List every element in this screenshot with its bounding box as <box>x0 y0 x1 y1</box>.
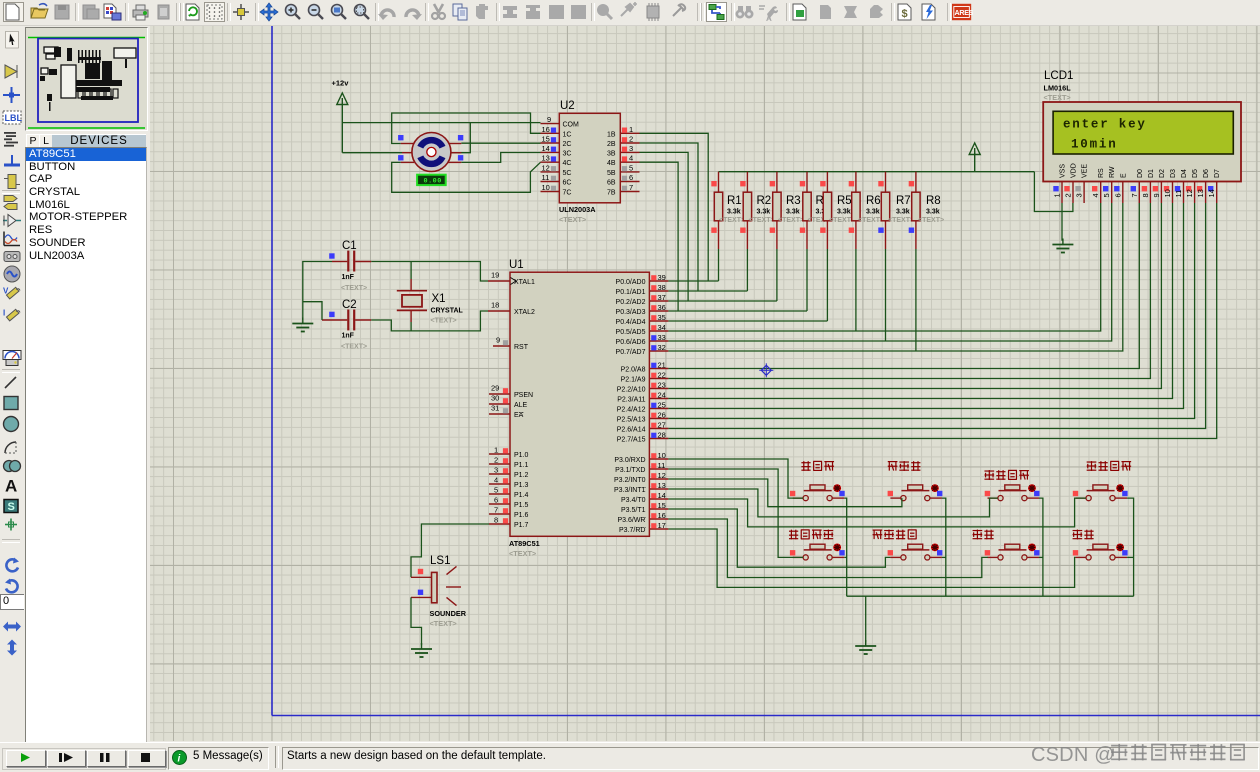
U1 pin XTAL1 <box>488 271 535 287</box>
sheet border <box>272 26 1260 716</box>
svg-text:19: 19 <box>491 271 499 280</box>
U1 pin P3.3 <box>614 481 668 494</box>
svg-text:R7: R7 <box>896 195 911 207</box>
svg-text:12: 12 <box>542 163 550 172</box>
svg-text:<TEXT>: <TEXT> <box>341 285 367 292</box>
svg-text:P3.3/INT1: P3.3/INT1 <box>614 487 646 494</box>
svg-text:X1: X1 <box>432 293 446 305</box>
svg-text:13: 13 <box>542 154 550 163</box>
svg-text:RST: RST <box>514 344 529 351</box>
svg-text:<TEXT>: <TEXT> <box>888 217 914 224</box>
svg-text:0.00: 0.00 <box>424 178 442 186</box>
power +12v terminal <box>332 79 350 153</box>
wire P3.3 to button WX <box>668 489 998 517</box>
svg-text:3.3k: 3.3k <box>896 209 910 216</box>
U1 pin P0.4/AD4 <box>616 313 669 326</box>
svg-text:P1.7: P1.7 <box>514 522 529 529</box>
U1 pin P2.5/A13 <box>617 411 669 424</box>
push button ZJ zengjia shijian (increase time) <box>789 530 845 560</box>
wire P0.2 row <box>668 300 777 302</box>
wire R2 bottom <box>746 249 748 291</box>
svg-text:8: 8 <box>494 516 498 525</box>
svg-text:9: 9 <box>1152 193 1161 197</box>
svg-text:LS1: LS1 <box>430 555 450 567</box>
svg-text:LCD1: LCD1 <box>1044 70 1073 82</box>
svg-text:P0.7/AD7: P0.7/AD7 <box>616 349 646 356</box>
svg-text:P3.4/T0: P3.4/T0 <box>621 497 646 504</box>
wire P0.1 row <box>668 290 747 292</box>
U1 pin P3.5 <box>621 501 668 514</box>
LCD pin 6 E <box>1113 173 1127 203</box>
svg-text:3: 3 <box>494 466 498 475</box>
svg-text:1: 1 <box>494 446 498 455</box>
U1 pin ALE <box>489 394 528 410</box>
svg-text:4: 4 <box>494 476 498 485</box>
svg-text:XTAL1: XTAL1 <box>514 279 535 286</box>
svg-text:P0.2/AD2: P0.2/AD2 <box>616 299 646 306</box>
svg-text:<TEXT>: <TEXT> <box>858 217 884 224</box>
U1 pin P1.2 <box>489 466 529 480</box>
svg-text:P3.6/WR: P3.6/WR <box>617 517 645 524</box>
svg-text:17: 17 <box>658 521 666 530</box>
wire P0.5 row to LCD RS <box>668 203 1100 331</box>
svg-text:P0.0/AD0: P0.0/AD0 <box>616 279 646 286</box>
wire P2.3 to LCD D3 <box>668 203 1172 399</box>
svg-text:7C: 7C <box>563 190 572 197</box>
svg-text:2B: 2B <box>607 141 616 148</box>
LCD LCD1 LM016L <box>1043 70 1241 182</box>
svg-text:S: S <box>8 501 15 513</box>
svg-text:I: I <box>3 309 5 318</box>
svg-text:11: 11 <box>1174 190 1183 198</box>
wire P2.6 to LCD D6 <box>668 203 1205 429</box>
svg-text:3C: 3C <box>563 150 572 157</box>
svg-text:35: 35 <box>658 313 666 322</box>
svg-text:2: 2 <box>629 135 633 144</box>
ground (sounder) <box>421 643 423 649</box>
svg-text:<TEXT>: <TEXT> <box>719 217 745 224</box>
resistor R6 3.3k <box>849 172 884 249</box>
svg-text:D3: D3 <box>1170 169 1177 178</box>
wire P2.7 to LCD D7 <box>668 203 1216 439</box>
U1 pin P0.6/AD6 <box>616 333 669 346</box>
svg-text:30: 30 <box>491 394 499 403</box>
svg-text:3.3k: 3.3k <box>727 209 741 216</box>
svg-text:P1.5: P1.5 <box>514 502 529 509</box>
svg-text:12: 12 <box>1185 189 1194 197</box>
U1 pin P2.7/A15 <box>617 431 669 444</box>
wire R8 bottom <box>915 249 917 351</box>
U1 pin P3.0 <box>614 451 668 464</box>
svg-text:23: 23 <box>658 381 666 390</box>
svg-text:2: 2 <box>1064 193 1073 197</box>
svg-text:P2.3/A11: P2.3/A11 <box>617 397 645 404</box>
svg-text:R6: R6 <box>866 195 881 207</box>
svg-text:P1.1: P1.1 <box>514 462 529 469</box>
wire P2.5 to LCD D5 <box>668 203 1194 419</box>
resistor R4 3.3k <box>800 172 834 249</box>
wire LCD VSS to ground <box>1061 203 1063 241</box>
svg-text:R3: R3 <box>786 195 801 207</box>
svg-text:P2.0/A8: P2.0/A8 <box>621 367 646 374</box>
svg-text:<TEXT>: <TEXT> <box>749 217 775 224</box>
svg-text:34: 34 <box>658 323 666 332</box>
svg-text:7B: 7B <box>607 190 616 197</box>
svg-text:CRYSTAL: CRYSTAL <box>431 308 464 315</box>
wire sounder to ground <box>411 597 422 645</box>
wire motor left-top to U2 1C <box>392 113 541 144</box>
wire +5V rail to LCD VDD <box>1034 172 1073 212</box>
svg-text:P3.1/TXD: P3.1/TXD <box>615 467 645 474</box>
svg-text:P0.6/AD6: P0.6/AD6 <box>616 339 646 346</box>
svg-text:9: 9 <box>496 336 500 345</box>
svg-text:CSDN @: CSDN @ <box>1031 744 1115 766</box>
svg-text:enter key: enter key <box>1063 118 1147 132</box>
U1 pin P0.3/AD3 <box>616 303 669 316</box>
svg-text:27: 27 <box>658 421 666 430</box>
wire motor right-center to COM rail <box>450 123 470 153</box>
wire P0.3 row <box>668 310 807 312</box>
U1 pin P1.5 <box>489 496 529 510</box>
svg-text:16: 16 <box>658 511 666 520</box>
power +5V terminal <box>969 143 980 172</box>
svg-text:13: 13 <box>1196 189 1205 197</box>
origin marker <box>759 363 773 377</box>
svg-text:A: A <box>766 14 772 22</box>
svg-text:P3.7/RD: P3.7/RD <box>619 527 645 534</box>
svg-text:11: 11 <box>542 173 550 182</box>
svg-text:4: 4 <box>1091 193 1100 197</box>
wire motor right-top to U2 2C <box>461 142 540 144</box>
push button MS moshi xuanze (mode select) <box>1073 461 1131 501</box>
svg-text:P2.5/A13: P2.5/A13 <box>617 417 646 424</box>
motor logic indicators <box>398 135 463 161</box>
svg-text:1nF: 1nF <box>342 274 355 281</box>
U1 pin P0.0/AD0 <box>616 273 669 286</box>
svg-text:1B: 1B <box>607 131 616 138</box>
U1 pin P1.6 <box>489 506 529 520</box>
U1 pin P2.2/A10 <box>617 381 669 394</box>
wire X1 bottom to C2 net <box>410 322 412 331</box>
svg-text:3B: 3B <box>607 150 616 157</box>
svg-text:38: 38 <box>658 283 666 292</box>
svg-text:<TEXT>: <TEXT> <box>341 344 367 351</box>
wire U2 1B to P0.0 <box>640 133 709 281</box>
svg-text:3.3k: 3.3k <box>786 209 800 216</box>
stepper motor <box>401 133 462 172</box>
push button SG shuaigan (spin dry) <box>1073 530 1128 560</box>
svg-text:9: 9 <box>547 115 551 124</box>
LCD pin 8 D1 <box>1141 169 1155 203</box>
wire U2 2B to P0.1 <box>640 143 699 291</box>
LCD pin 14 D7 <box>1207 169 1221 203</box>
svg-text:6: 6 <box>494 496 498 505</box>
push button JS jianshao shijian (decrease time) <box>873 530 943 560</box>
svg-text:P1.4: P1.4 <box>514 492 529 499</box>
U1 pin P0.5/AD5 <box>616 323 669 336</box>
svg-text:1C: 1C <box>563 131 572 138</box>
U1 pin RST <box>493 336 529 352</box>
U1 pin P2.3/A11 <box>617 391 668 404</box>
svg-text:7: 7 <box>1130 193 1139 197</box>
U1 pin P0.7/AD7 <box>616 343 669 356</box>
capacitor C1 1nF <box>329 240 371 292</box>
svg-text:D7: D7 <box>1214 169 1221 178</box>
svg-text:ALE: ALE <box>514 402 528 409</box>
resistor R3 3.3k <box>770 172 804 249</box>
svg-text:6B: 6B <box>607 180 616 187</box>
svg-text:RW: RW <box>1109 166 1116 178</box>
wire motor left-bottom to U2 4C <box>392 162 541 192</box>
wire R6 bottom <box>855 249 857 331</box>
wire C2 to XTAL2 <box>371 311 488 331</box>
svg-text:7: 7 <box>494 506 498 515</box>
resistor R5 3.3k <box>820 172 855 249</box>
svg-text:P2.6/A14: P2.6/A14 <box>617 427 646 434</box>
svg-text:<TEXT>: <TEXT> <box>778 217 804 224</box>
svg-text:39: 39 <box>658 273 666 282</box>
push button QL qianglixi (strong wash) <box>888 461 943 501</box>
svg-text:37: 37 <box>658 293 666 302</box>
svg-text:18: 18 <box>491 301 499 310</box>
svg-text:5: 5 <box>1102 193 1111 197</box>
svg-text:11: 11 <box>658 461 666 470</box>
svg-text:6: 6 <box>1113 193 1122 197</box>
svg-text:5C: 5C <box>563 170 572 177</box>
svg-text:6C: 6C <box>563 180 572 187</box>
svg-text:13: 13 <box>658 481 666 490</box>
U1 pin P1.0 <box>489 446 529 460</box>
wire P0.0 row <box>668 280 718 282</box>
svg-text:R8: R8 <box>926 195 941 207</box>
svg-text:VDD: VDD <box>1071 163 1078 178</box>
motor rpm display <box>417 175 446 186</box>
svg-text:4C: 4C <box>563 160 572 167</box>
pullup rail wire (+5V to resistor tops) <box>719 171 1035 173</box>
svg-text:P2.1/A9: P2.1/A9 <box>621 377 646 384</box>
wire P0.4 row <box>668 320 827 322</box>
svg-text:10min: 10min <box>1071 138 1118 152</box>
U1 pin P2.0/A8 <box>621 361 669 374</box>
svg-text:5: 5 <box>494 486 498 495</box>
U1 pin P1.4 <box>489 486 529 500</box>
U1 pin P1.1 <box>489 456 529 470</box>
U1 pin P3.4 <box>621 491 668 504</box>
U1 pin P3.6 <box>617 511 668 524</box>
svg-text:P3.0/RXD: P3.0/RXD <box>614 457 645 464</box>
svg-text:PSEN: PSEN <box>514 392 533 399</box>
wire P2.0 to LCD D0 <box>668 203 1139 369</box>
wire R3 bottom <box>776 249 778 301</box>
svg-text:D6: D6 <box>1203 169 1210 178</box>
svg-text:P3.5/T1: P3.5/T1 <box>621 507 646 514</box>
push button WX weixian zhongduan (danger stop) <box>984 470 1039 501</box>
svg-text:i: i <box>178 754 181 765</box>
svg-text:D1: D1 <box>1148 169 1155 178</box>
wire +12v COM rail <box>342 122 540 124</box>
sounder LS1 <box>411 555 467 628</box>
U1 pin P2.4/A12 <box>617 401 669 414</box>
svg-text:P1.6: P1.6 <box>514 512 529 519</box>
svg-text:2: 2 <box>494 456 498 465</box>
svg-text:D0: D0 <box>1137 169 1144 178</box>
wire P1.7 to sounder <box>411 524 489 577</box>
svg-text:14: 14 <box>542 144 550 153</box>
push button KF qingrouxi (soft wash) <box>790 461 845 501</box>
resistor R2 3.3k <box>740 172 774 249</box>
U1 pin P3.1 <box>615 461 668 474</box>
ULN2003A U2 <box>541 100 640 224</box>
svg-text:VEE: VEE <box>1082 164 1089 178</box>
U1 pin PSEN <box>489 384 533 400</box>
svg-text:RS: RS <box>1098 168 1105 178</box>
svg-text:3.3k: 3.3k <box>926 209 940 216</box>
wire P3.5 to button JS <box>668 509 890 567</box>
svg-text:C2: C2 <box>342 299 357 311</box>
svg-text:LBL: LBL <box>5 113 23 123</box>
svg-text:P3.2/INT0: P3.2/INT0 <box>614 477 646 484</box>
svg-text:3: 3 <box>629 144 633 153</box>
wire U2 4B to P0.3 <box>640 162 679 311</box>
wire R1 bottom <box>718 249 720 281</box>
svg-text:C1: C1 <box>342 240 357 252</box>
svg-text:26: 26 <box>658 411 666 420</box>
wire P2.1 to LCD D1 <box>668 203 1150 379</box>
wire P2.2 to LCD D2 <box>668 203 1161 389</box>
resistor R1 3.3k <box>711 172 745 249</box>
svg-text:EA: EA <box>514 412 524 419</box>
svg-text:P0.5/AD5: P0.5/AD5 <box>616 329 646 336</box>
wire R7 bottom <box>885 249 887 341</box>
ground (LCD VSS) <box>1062 239 1064 245</box>
svg-text:D2: D2 <box>1159 169 1166 178</box>
svg-text:3: 3 <box>1075 193 1084 197</box>
svg-text:XTAL2: XTAL2 <box>514 309 535 316</box>
svg-text:12: 12 <box>658 471 666 480</box>
wire motor left-center from +12v <box>342 152 402 154</box>
svg-text:D4: D4 <box>1181 169 1188 178</box>
svg-text:5: 5 <box>629 163 633 172</box>
svg-text:SOUNDER: SOUNDER <box>430 609 467 618</box>
resistor R8 3.3k <box>909 172 944 249</box>
wire C1 left to ground <box>303 262 332 320</box>
LCD pin 11 D4 <box>1174 169 1188 203</box>
svg-text:28: 28 <box>658 431 666 440</box>
LCD pin 12 D5 <box>1185 169 1199 203</box>
svg-text:33: 33 <box>658 333 666 342</box>
wire rail to ground <box>865 596 867 642</box>
wire R4 bottom <box>806 249 808 311</box>
svg-text:8: 8 <box>1141 193 1150 197</box>
LCD pin 13 D6 <box>1196 169 1210 203</box>
svg-text:COM: COM <box>563 122 580 129</box>
svg-text:R2: R2 <box>757 195 772 207</box>
svg-text:3.3k: 3.3k <box>837 209 851 216</box>
svg-text:P1.0: P1.0 <box>514 452 529 459</box>
svg-text:1: 1 <box>629 125 633 134</box>
push button QD qidong (start) <box>973 530 1040 560</box>
U1 pin P3.7 <box>619 521 668 534</box>
svg-text:31: 31 <box>491 404 499 413</box>
svg-text:<TEXT>: <TEXT> <box>430 619 457 628</box>
wire P3.6 to button QD <box>668 519 988 578</box>
U1 pin EA <box>489 404 524 420</box>
svg-text:14: 14 <box>1207 189 1216 197</box>
svg-text:<TEXT>: <TEXT> <box>431 318 457 325</box>
svg-text:<TEXT>: <TEXT> <box>509 549 536 558</box>
wire P3.4 to button MS <box>668 498 1086 527</box>
svg-text:P2.7/A15: P2.7/A15 <box>617 437 646 444</box>
svg-text:A: A <box>5 477 17 495</box>
svg-text:U1: U1 <box>509 259 524 271</box>
LCD pin 7 D0 <box>1130 169 1144 203</box>
wire R5 bottom <box>826 249 828 321</box>
svg-text:4: 4 <box>629 154 633 163</box>
wire P0.7 row to LCD E <box>668 203 1122 351</box>
svg-text:<TEXT>: <TEXT> <box>1044 93 1071 102</box>
U1 pin P2.6/A14 <box>617 421 669 434</box>
LCD pin 9 D2 <box>1152 169 1166 203</box>
svg-text:3.3k: 3.3k <box>866 209 880 216</box>
svg-text:P0.3/AD3: P0.3/AD3 <box>616 309 646 316</box>
svg-text:1: 1 <box>1053 193 1062 197</box>
svg-text:P2.4/A12: P2.4/A12 <box>617 407 646 414</box>
svg-text:32: 32 <box>658 343 666 352</box>
LCD pin 2 VDD <box>1064 163 1078 203</box>
LCD pin 3 VEE <box>1075 164 1089 203</box>
svg-text:P1.2: P1.2 <box>514 472 529 479</box>
svg-text:6: 6 <box>629 173 633 182</box>
LCD pin 1 VSS <box>1053 164 1067 203</box>
svg-text:R5: R5 <box>837 195 852 207</box>
svg-text:ARES: ARES <box>955 9 973 17</box>
ground (buttons) <box>865 640 867 646</box>
wire C1 to XTAL1 <box>371 262 488 282</box>
wire C2 left branch <box>303 302 322 320</box>
svg-text:P1.3: P1.3 <box>514 482 529 489</box>
U1 pin P1.3 <box>489 476 529 490</box>
svg-text:<TEXT>: <TEXT> <box>918 217 944 224</box>
svg-text:10: 10 <box>1163 189 1172 197</box>
wire X1 top to C1 net <box>410 262 412 280</box>
svg-text:15: 15 <box>542 135 550 144</box>
button common ground rail <box>844 498 1133 596</box>
svg-text:AT89C51: AT89C51 <box>509 539 540 548</box>
svg-text:36: 36 <box>658 303 666 312</box>
U1 pin P3.2 <box>614 471 668 484</box>
svg-text:VSS: VSS <box>1060 164 1067 178</box>
capacitor C2 1nF <box>322 299 371 351</box>
wire P3.2 to button QL <box>668 479 902 507</box>
svg-text:24: 24 <box>658 391 666 400</box>
LCD pin 4 RS <box>1091 168 1105 203</box>
svg-text:14: 14 <box>658 491 666 500</box>
U1 pin P1.7 <box>489 516 529 530</box>
LCD pin 5 RW <box>1102 166 1116 203</box>
svg-text:10: 10 <box>542 183 550 192</box>
svg-text:R1: R1 <box>727 195 742 207</box>
svg-text:10: 10 <box>658 451 666 460</box>
U1 pin P0.1/AD1 <box>616 283 669 296</box>
svg-text:15: 15 <box>658 501 666 510</box>
AT89C51 U1 <box>509 259 649 558</box>
svg-text:<TEXT>: <TEXT> <box>559 215 586 224</box>
svg-text:P0.1/AD1: P0.1/AD1 <box>616 289 646 296</box>
svg-text:16: 16 <box>542 125 550 134</box>
svg-text:4B: 4B <box>607 160 616 167</box>
svg-text:22: 22 <box>658 371 666 380</box>
svg-text:7: 7 <box>629 183 633 192</box>
